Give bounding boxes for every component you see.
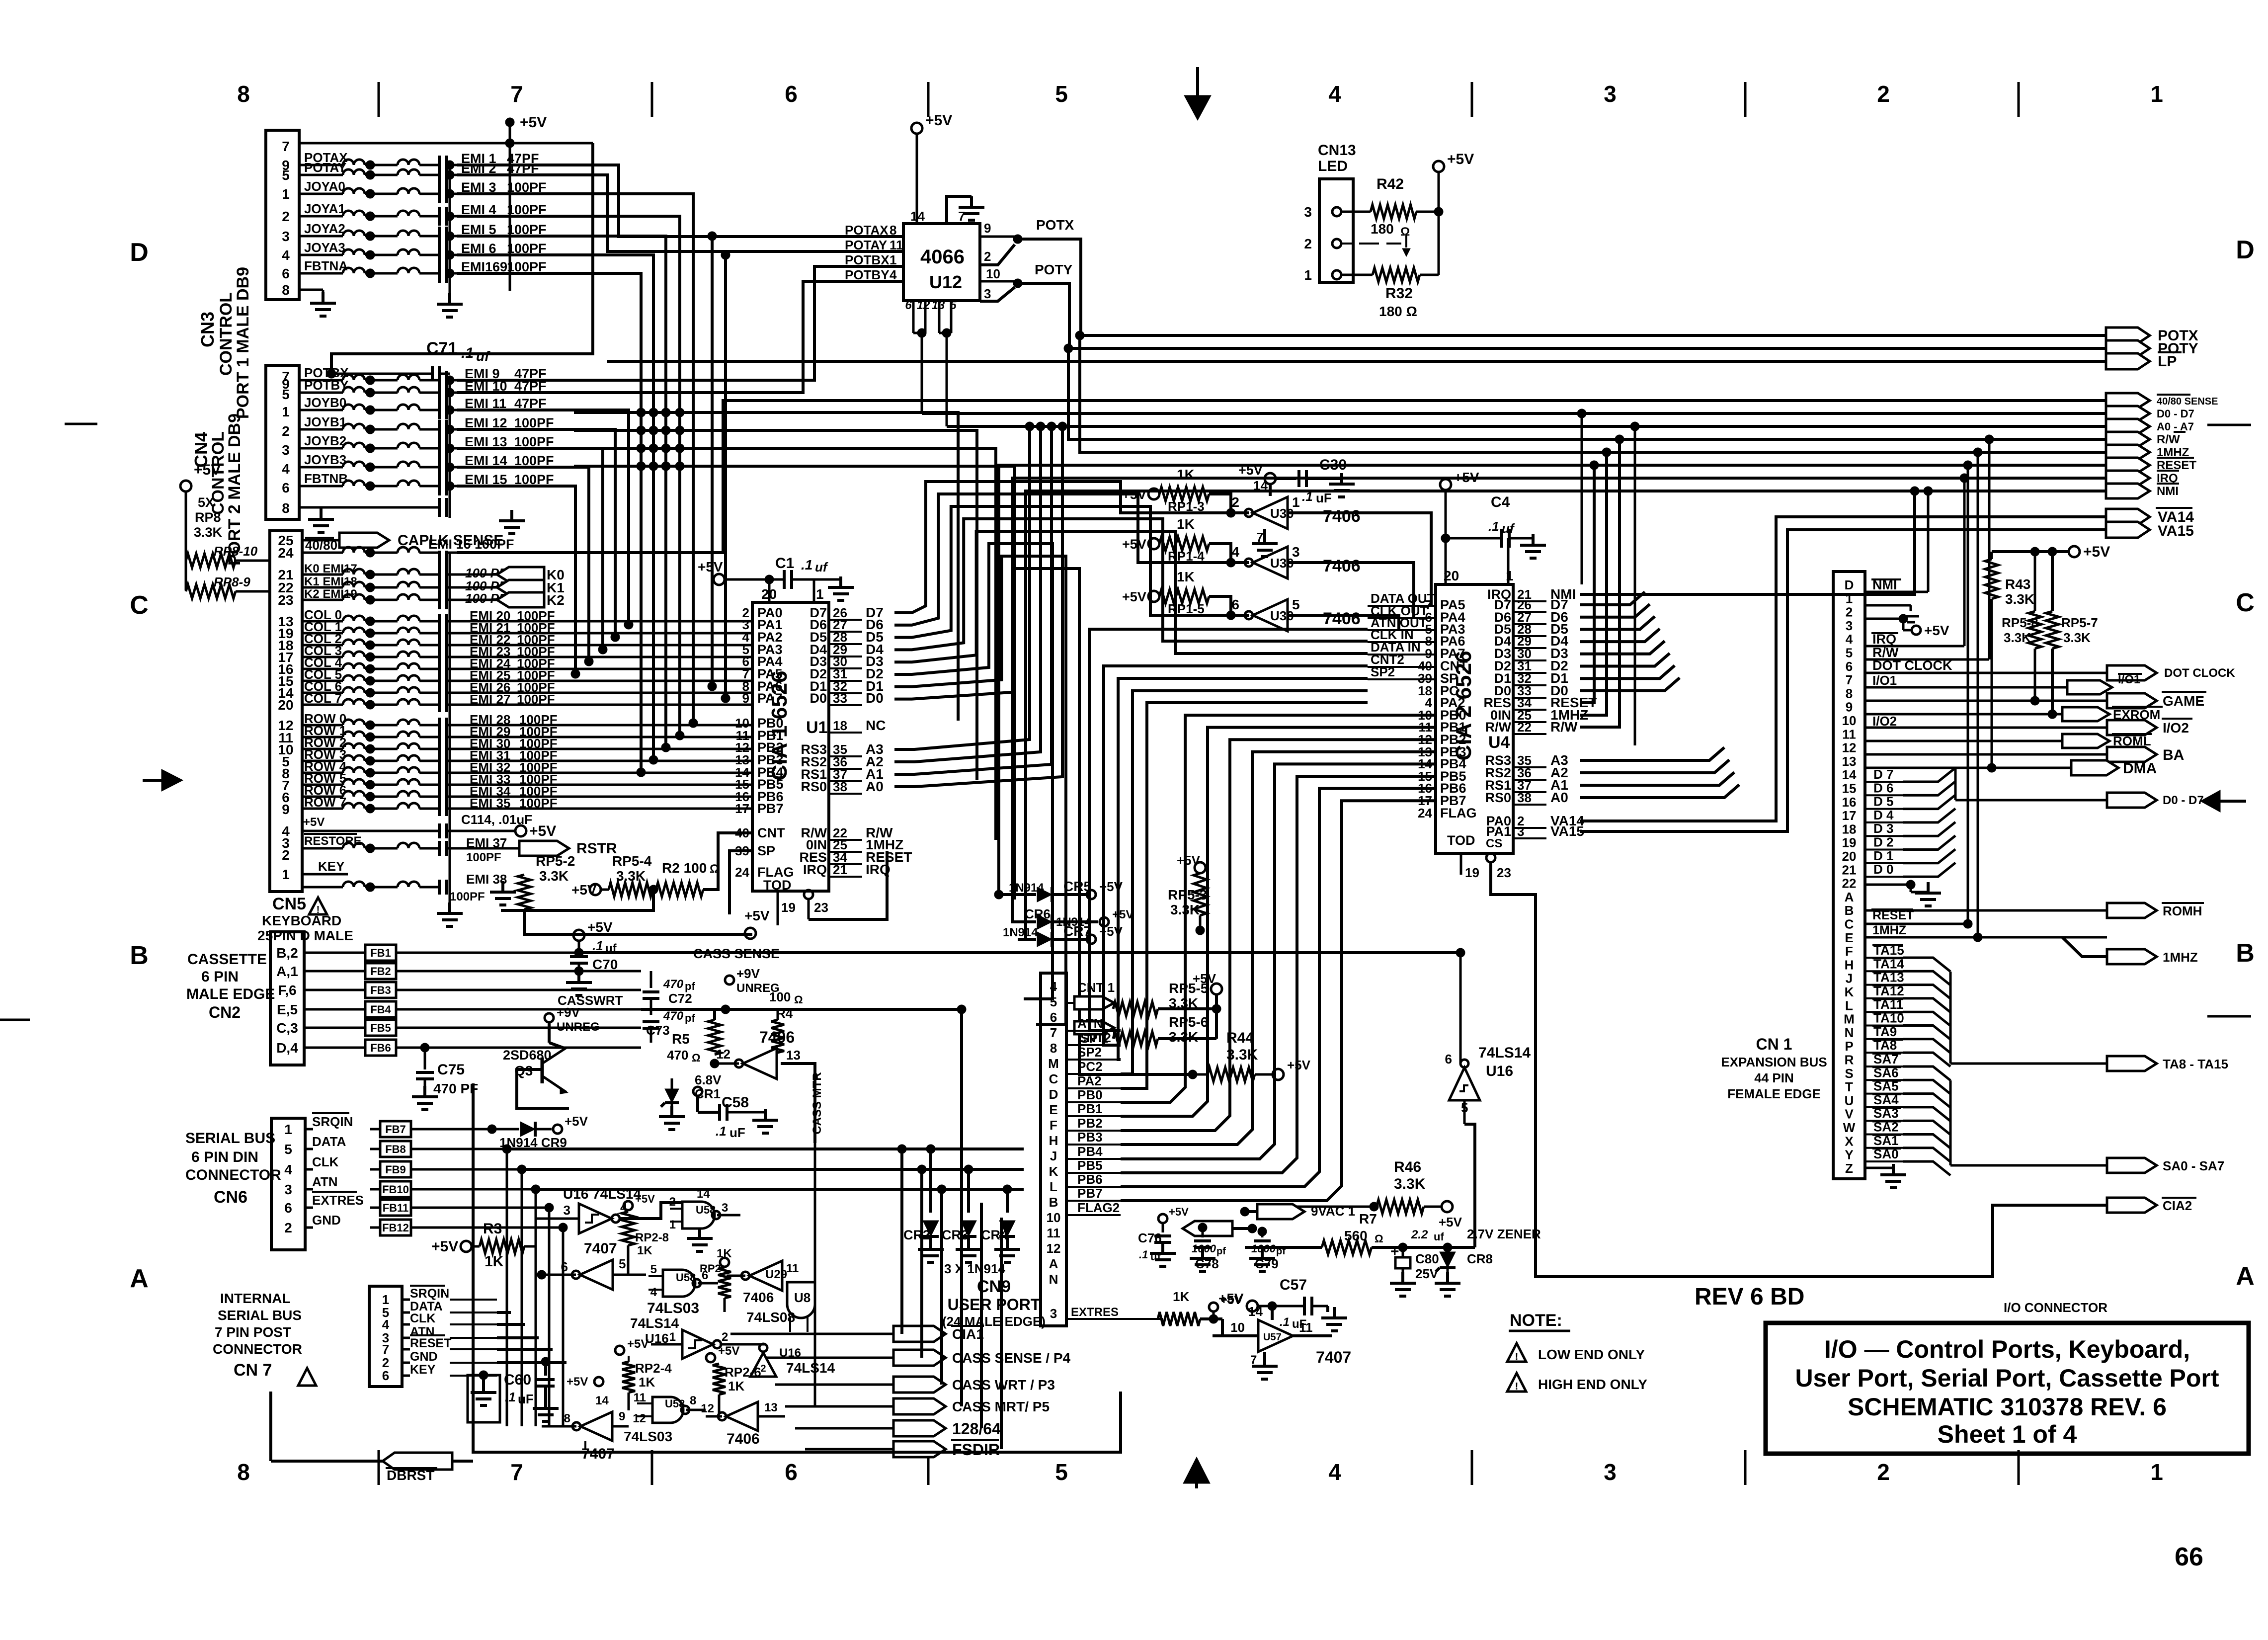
svg-text:3.3K: 3.3K	[194, 525, 223, 540]
CIA1 bottom pins	[744, 851, 887, 939]
svg-text:FLAG2: FLAG2	[1077, 1200, 1120, 1215]
svg-text:+5V: +5V	[567, 1375, 588, 1389]
wire	[457, 620, 752, 623]
wire POTBX to 4066	[457, 266, 903, 380]
svg-text:RS0: RS0	[1485, 790, 1511, 805]
svg-text:PA2: PA2	[1077, 1073, 1102, 1088]
connector CN3	[266, 130, 299, 300]
svg-text:FB9: FB9	[385, 1163, 406, 1176]
svg-text:11: 11	[634, 1391, 646, 1404]
svg-text:6: 6	[1846, 659, 1853, 674]
cap bus CN5	[437, 553, 463, 926]
wire	[894, 482, 1215, 613]
wire	[457, 736, 752, 738]
svg-text:DBRST: DBRST	[387, 1468, 434, 1483]
connector CN13 label	[1318, 142, 1356, 174]
flag CNT1	[1066, 980, 1115, 1009]
wire serial atn	[536, 1188, 1024, 1191]
svg-text:7406: 7406	[1323, 609, 1361, 628]
svg-text:CLK: CLK	[410, 1312, 435, 1325]
+5V supply CN13	[1433, 151, 1474, 275]
svg-text:19: 19	[1842, 835, 1857, 850]
wire flag feeders	[897, 1005, 1001, 1449]
svg-text:Ω: Ω	[794, 993, 803, 1006]
flag I/O2	[2107, 719, 2192, 736]
node DOT CLOCK CN1	[1865, 658, 2107, 673]
zone letters left	[130, 238, 149, 1293]
svg-text:EXPANSION BUS: EXPANSION BUS	[1721, 1055, 1827, 1069]
svg-text:+5V: +5V	[627, 1337, 648, 1351]
svg-text:F: F	[1050, 1118, 1057, 1133]
svg-text:!: !	[1515, 1381, 1519, 1392]
svg-text:3: 3	[1292, 544, 1300, 560]
svg-text:U12: U12	[929, 272, 962, 292]
svg-text:3.3K: 3.3K	[2005, 591, 2034, 607]
svg-text:17: 17	[735, 801, 749, 816]
svg-text:U16: U16	[1486, 1063, 1513, 1079]
svg-text:1MHZ: 1MHZ	[2163, 950, 2198, 965]
svg-text:E,5: E,5	[277, 1002, 298, 1017]
connector CN9 label	[942, 1277, 1046, 1329]
svg-text:470 PF: 470 PF	[433, 1081, 478, 1096]
+5V supply CN3	[299, 114, 593, 291]
wire U30 outputs	[1288, 513, 1431, 629]
svg-text:5: 5	[650, 1263, 657, 1276]
wire RESET feeder	[994, 465, 2106, 899]
svg-text:ATN: ATN	[312, 1174, 338, 1189]
svg-text:8: 8	[282, 500, 290, 516]
svg-text:.1: .1	[801, 557, 812, 573]
connector CN4 label	[191, 413, 244, 566]
svg-text:+5V: +5V	[1112, 908, 1134, 921]
EMI filter EMI1 row POTAX	[299, 150, 539, 174]
svg-text:CASS SENSE / P4: CASS SENSE / P4	[952, 1350, 1071, 1366]
resistor RP5-6	[1113, 1009, 1216, 1046]
svg-text:7407: 7407	[581, 1446, 615, 1462]
EMI filter EMI5 row JOYA2	[299, 221, 547, 246]
svg-text:RP5-7: RP5-7	[2061, 615, 2098, 630]
diode CR2	[903, 1145, 944, 1262]
svg-text:uf: uf	[605, 942, 617, 955]
svg-text:74LS14: 74LS14	[786, 1360, 835, 1376]
resistor RP5-5	[1113, 971, 1222, 1016]
serial bus verticals	[492, 1145, 567, 1426]
svg-text:User Port, Serial Port, Casset: User Port, Serial Port, Cassette Port	[1795, 1364, 2219, 1392]
wire	[1580, 747, 1724, 760]
wire CN9 control staircase	[1089, 629, 1368, 1088]
svg-text:14: 14	[1248, 1304, 1263, 1319]
wire	[1580, 629, 1660, 642]
svg-text:74LS14: 74LS14	[630, 1315, 679, 1331]
wire	[457, 704, 752, 706]
wire A0-A7 line	[947, 425, 2106, 428]
svg-text:1: 1	[1304, 267, 1312, 283]
svg-text:W: W	[1843, 1120, 1856, 1135]
svg-text:Y: Y	[1845, 1148, 1853, 1162]
text CASSWRT	[558, 993, 962, 1014]
svg-text:CN2: CN2	[209, 1003, 241, 1021]
svg-text:CNT: CNT	[757, 825, 785, 840]
svg-text:22: 22	[1842, 876, 1857, 891]
svg-text:3: 3	[984, 286, 991, 301]
svg-text:PB6: PB6	[1077, 1172, 1103, 1187]
svg-text:D 5: D 5	[1873, 794, 1893, 809]
svg-text:10: 10	[1047, 1210, 1061, 1225]
svg-text:U1: U1	[806, 718, 827, 737]
node RESET CN1	[1865, 461, 1972, 928]
svg-text:+5V: +5V	[1177, 853, 1201, 868]
svg-text:2: 2	[282, 209, 290, 224]
diode CR4	[981, 1185, 1020, 1262]
capacitor C76	[1138, 1206, 1189, 1266]
flag 1MHZ	[2062, 937, 2198, 965]
svg-text:5: 5	[282, 387, 290, 402]
svg-text:+5V: +5V	[529, 823, 556, 839]
svg-text:1: 1	[669, 1218, 676, 1231]
svg-text:+5V: +5V	[635, 1193, 655, 1205]
svg-text:A: A	[1049, 1256, 1058, 1271]
svg-text:NC: NC	[866, 718, 886, 733]
svg-text:X: X	[1845, 1134, 1854, 1148]
wire IRQ feeder	[1012, 478, 2106, 922]
svg-text:+5V: +5V	[1447, 151, 1474, 167]
svg-text:SA0 - SA7: SA0 - SA7	[2163, 1158, 2224, 1173]
svg-text:FB4: FB4	[370, 1003, 391, 1016]
svg-text:B: B	[130, 941, 149, 970]
svg-text:PB5: PB5	[1077, 1158, 1103, 1173]
wire	[457, 448, 607, 654]
connector CN4	[266, 365, 299, 519]
svg-text:3: 3	[1604, 81, 1617, 107]
resistor RP5-2	[518, 840, 575, 909]
EMI filter EMI32 row ROW4	[302, 759, 558, 780]
svg-text:4: 4	[1328, 1459, 1341, 1485]
wire R/W CIA2	[1580, 435, 1624, 727]
resistor RP5-8	[2002, 552, 2041, 705]
wire enclosure	[473, 1083, 1121, 1452]
diode CR6	[1014, 906, 1134, 929]
svg-text:6: 6	[284, 1200, 292, 1216]
svg-text:4: 4	[1846, 632, 1853, 647]
svg-text:D: D	[1049, 1087, 1058, 1102]
svg-text:21: 21	[1842, 862, 1857, 877]
svg-text:8: 8	[690, 1394, 696, 1407]
wire	[894, 531, 1368, 662]
svg-text:19: 19	[1465, 865, 1479, 880]
flag 40/80 SENSE	[2106, 393, 2218, 408]
EMI filter EMI34 row ROW6	[302, 783, 558, 804]
wire	[1580, 678, 1680, 691]
svg-text:D 7: D 7	[1873, 767, 1893, 782]
EMI filter EMI16 row 40/80	[302, 537, 514, 567]
svg-text:+5V: +5V	[1220, 1294, 1242, 1307]
zener CR1	[659, 1072, 722, 1130]
svg-text:5: 5	[284, 1142, 292, 1157]
svg-text:100PF: 100PF	[450, 890, 485, 903]
svg-text:33: 33	[833, 691, 847, 706]
svg-text:CASS MTR: CASS MTR	[810, 1072, 824, 1134]
svg-text:9: 9	[742, 691, 749, 706]
wire	[574, 444, 996, 840]
svg-text:C,3: C,3	[276, 1020, 298, 1036]
svg-text:9: 9	[1846, 700, 1853, 715]
resistor R3	[431, 1221, 536, 1270]
svg-text:+5V: +5V	[1287, 1058, 1311, 1072]
svg-text:7: 7	[1250, 1353, 1257, 1367]
ground pin22	[1865, 880, 1941, 906]
svg-text:.1: .1	[716, 1124, 727, 1139]
svg-text:6 PIN DIN: 6 PIN DIN	[191, 1149, 258, 1165]
svg-text:6: 6	[785, 81, 798, 107]
wire	[457, 656, 752, 658]
svg-text:FSDIR: FSDIR	[952, 1441, 1000, 1459]
4066 right pins	[980, 221, 1018, 301]
svg-text:INTERNAL: INTERNAL	[220, 1291, 291, 1306]
ferrite FB1	[304, 945, 641, 961]
svg-text:C: C	[1845, 917, 1854, 932]
svg-text:8: 8	[237, 81, 250, 107]
svg-text:7: 7	[1846, 672, 1853, 687]
resistor network RP8	[180, 462, 270, 598]
svg-text:8: 8	[1050, 1041, 1057, 1056]
svg-text:12: 12	[1842, 740, 1857, 755]
svg-text:14: 14	[1842, 767, 1857, 782]
svg-text:D: D	[130, 238, 149, 267]
connector CN13	[1304, 179, 1353, 283]
svg-text:JOYB3: JOYB3	[304, 452, 346, 467]
flag 128/64	[795, 1420, 1001, 1438]
connector CN2	[270, 932, 304, 1065]
+5V supply R43	[1992, 544, 2110, 560]
svg-text:24: 24	[735, 865, 749, 880]
svg-text:R32: R32	[1385, 285, 1413, 302]
svg-text:1K: 1K	[485, 1253, 504, 1270]
svg-text:.1: .1	[592, 938, 603, 953]
op-amp U1 CIA 1 6526	[735, 586, 829, 893]
svg-text:5: 5	[282, 167, 290, 183]
svg-text:CN6: CN6	[214, 1188, 247, 1207]
4066 left pins	[845, 223, 903, 282]
svg-text:I/O1: I/O1	[1872, 673, 1897, 688]
svg-text:FB10: FB10	[382, 1183, 409, 1196]
svg-text:7407: 7407	[1316, 1348, 1351, 1366]
svg-text:B,2: B,2	[276, 945, 298, 961]
resistor RP1-4	[1122, 516, 1235, 567]
svg-text:+5V: +5V	[1439, 1215, 1462, 1230]
svg-text:+5V: +5V	[587, 919, 613, 935]
flag CIA1	[730, 1326, 984, 1342]
svg-text:SP2: SP2	[1077, 1045, 1102, 1060]
svg-text:3: 3	[1304, 204, 1312, 220]
flag A0 - A7	[2106, 419, 2194, 434]
op-amp U12 4066	[903, 209, 980, 301]
svg-text:C30: C30	[1319, 457, 1347, 473]
svg-text:CN3: CN3	[197, 312, 218, 347]
svg-text:Ω: Ω	[1400, 225, 1410, 239]
wire	[457, 429, 620, 642]
resistor R4	[769, 989, 803, 1053]
wire	[894, 422, 1056, 774]
ferrite FB5	[304, 1020, 641, 1036]
capacitor C1	[769, 555, 828, 602]
svg-text:D,4: D,4	[276, 1040, 298, 1056]
svg-text:4: 4	[1231, 544, 1239, 560]
svg-text:H: H	[1049, 1133, 1058, 1148]
wire POTAX to 4066	[457, 165, 903, 237]
svg-text:FB5: FB5	[370, 1022, 391, 1034]
svg-text:14: 14	[595, 1394, 609, 1407]
resistor R42	[1341, 176, 1443, 239]
svg-text:U58: U58	[696, 1204, 716, 1216]
svg-text:1: 1	[816, 586, 824, 602]
svg-text:7406: 7406	[743, 1290, 774, 1305]
EMI filter EMI33 row ROW5	[302, 771, 558, 792]
wire	[894, 494, 1215, 625]
EMI filter EMI23 row COL3	[302, 643, 555, 664]
svg-text:UNREG: UNREG	[557, 1020, 600, 1034]
node I/O1	[1865, 673, 2067, 688]
svg-text:JOYA0: JOYA0	[304, 179, 345, 194]
node POTY	[1013, 262, 1073, 288]
svg-text:L: L	[1845, 998, 1853, 1013]
svg-text:1K: 1K	[728, 1379, 744, 1394]
flag EXROM	[1865, 707, 2163, 722]
svg-text:P: P	[1845, 1039, 1853, 1054]
EMI filter EMI10 row POTBY	[299, 378, 547, 402]
page number	[2175, 1543, 2203, 1571]
svg-text:16: 16	[1842, 795, 1857, 810]
ground pin2	[1865, 605, 1919, 622]
svg-text:4: 4	[282, 461, 290, 477]
resistor R7	[1245, 1192, 1475, 1254]
svg-text:JOYA1: JOYA1	[304, 201, 345, 216]
svg-text:D 0: D 0	[1873, 862, 1893, 877]
svg-text:5: 5	[1050, 994, 1057, 1009]
svg-text:GAME: GAME	[2163, 693, 2204, 709]
svg-text:6: 6	[785, 1459, 798, 1485]
svg-text:24: 24	[278, 545, 294, 561]
wire	[1580, 772, 1734, 785]
wire POT tap PA6	[708, 232, 717, 691]
svg-text:3 X 1N914: 3 X 1N914	[944, 1261, 1005, 1276]
flag DMA	[1865, 760, 2157, 777]
resistor RP2-7	[700, 1247, 732, 1312]
svg-text:2: 2	[1877, 1459, 1890, 1485]
svg-text:CASS SENSE: CASS SENSE	[693, 946, 780, 961]
flag ROML	[1865, 734, 2152, 748]
flag RSTR	[457, 840, 617, 857]
op-amp U4 CIA 2 6526	[1436, 538, 1514, 853]
svg-text:A,1: A,1	[276, 964, 298, 979]
ground CN4	[299, 507, 334, 532]
svg-text:7: 7	[282, 139, 290, 154]
svg-text:KEY: KEY	[318, 859, 344, 874]
EMI filter EMI3 row JOYA0	[299, 179, 547, 203]
svg-text:1K: 1K	[1177, 467, 1195, 482]
resistor RP5-3	[1168, 853, 1207, 935]
svg-text:RP2-4: RP2-4	[635, 1361, 672, 1376]
svg-text:POTAY: POTAY	[304, 160, 346, 175]
wire 40/80 sense	[457, 401, 2106, 553]
note block	[1507, 1311, 1647, 1392]
logic U58 74LS03 gate 3	[624, 1391, 706, 1444]
svg-text:1: 1	[2150, 81, 2163, 107]
svg-text:14: 14	[910, 209, 925, 224]
svg-text:N: N	[1049, 1272, 1058, 1287]
diode CR9	[487, 1114, 588, 1150]
svg-text:SRQIN: SRQIN	[410, 1287, 449, 1301]
resistor R44	[1188, 1030, 1311, 1081]
svg-text:7407: 7407	[584, 1240, 617, 1257]
wire	[1580, 760, 1729, 773]
svg-text:1K: 1K	[639, 1375, 655, 1390]
svg-text:CN 7: CN 7	[234, 1361, 272, 1380]
svg-text:2: 2	[984, 249, 991, 264]
title block	[1766, 1323, 2249, 1454]
EMI filter EMI29 row ROW1	[302, 723, 558, 744]
op-amp U30 gate 1 7406	[1208, 494, 1361, 529]
ferrite FB7 row SRQIN	[305, 1113, 492, 1137]
svg-text:20: 20	[1444, 568, 1459, 583]
svg-text:M: M	[1844, 1012, 1855, 1027]
EMI filter EMI11 row JOYB0	[299, 395, 547, 419]
svg-text:12: 12	[716, 1047, 730, 1062]
wire	[1580, 592, 1645, 605]
flag IRQ	[2106, 471, 2179, 486]
svg-text:5X: 5X	[198, 495, 214, 510]
op-amp U30 gate 3 7406	[1208, 597, 1361, 631]
+9V UNREG supply	[725, 966, 780, 995]
flag K0	[497, 567, 565, 582]
svg-text:40/80 SENSE: 40/80 SENSE	[2157, 396, 2218, 407]
svg-text:CN5: CN5	[272, 895, 306, 913]
resistor R46	[1277, 1159, 1462, 1230]
op-amp 7406 gate D	[701, 1401, 785, 1447]
svg-text:3.3K: 3.3K	[2063, 630, 2091, 645]
wire	[574, 408, 958, 721]
svg-text:C70: C70	[592, 957, 618, 972]
svg-text:C73: C73	[646, 1023, 670, 1038]
connector CN6	[271, 1118, 305, 1250]
svg-text:+5V: +5V	[1122, 537, 1146, 552]
svg-text:DMA: DMA	[2123, 760, 2157, 777]
svg-text:FB8: FB8	[385, 1143, 406, 1155]
connector CN1 label	[1721, 1035, 1827, 1101]
EMI filter EMI20 row COL0	[302, 607, 555, 629]
flag SA0-SA7	[2107, 1158, 2224, 1173]
wire D0-D7 line	[922, 412, 2106, 415]
svg-text:3: 3	[1604, 1459, 1617, 1485]
resistor RP1-5	[1122, 569, 1235, 620]
flag ROMH	[1865, 903, 2204, 918]
connector CN7	[369, 1286, 402, 1387]
diode CR5	[1009, 879, 1123, 902]
svg-text:6: 6	[282, 266, 290, 281]
ferrite FB6	[304, 1040, 641, 1056]
svg-text:470: 470	[663, 1009, 684, 1023]
wire VA14	[1580, 517, 2106, 821]
capacitor C73	[643, 1009, 695, 1043]
svg-text:TOD: TOD	[763, 878, 792, 893]
CN7 rows	[402, 1286, 497, 1377]
svg-text:8: 8	[282, 282, 290, 298]
svg-text:B: B	[1049, 1195, 1058, 1210]
svg-text:D: D	[1845, 577, 1854, 592]
+5V pin3	[1865, 614, 1949, 638]
svg-text:13: 13	[1842, 754, 1857, 769]
op-amp U30 gate 2 7406	[1208, 544, 1361, 578]
svg-text:24: 24	[1418, 806, 1432, 820]
